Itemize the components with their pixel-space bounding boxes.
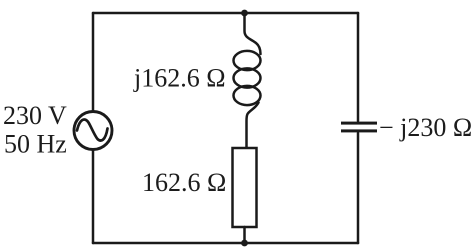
svg-text:230 V: 230 V xyxy=(3,101,67,130)
svg-text:50 Hz: 50 Hz xyxy=(4,130,67,159)
svg-text:− j230 Ω: − j230 Ω xyxy=(379,113,472,142)
svg-text:162.6 Ω: 162.6 Ω xyxy=(142,168,226,197)
svg-text:j162.6 Ω: j162.6 Ω xyxy=(133,64,226,93)
